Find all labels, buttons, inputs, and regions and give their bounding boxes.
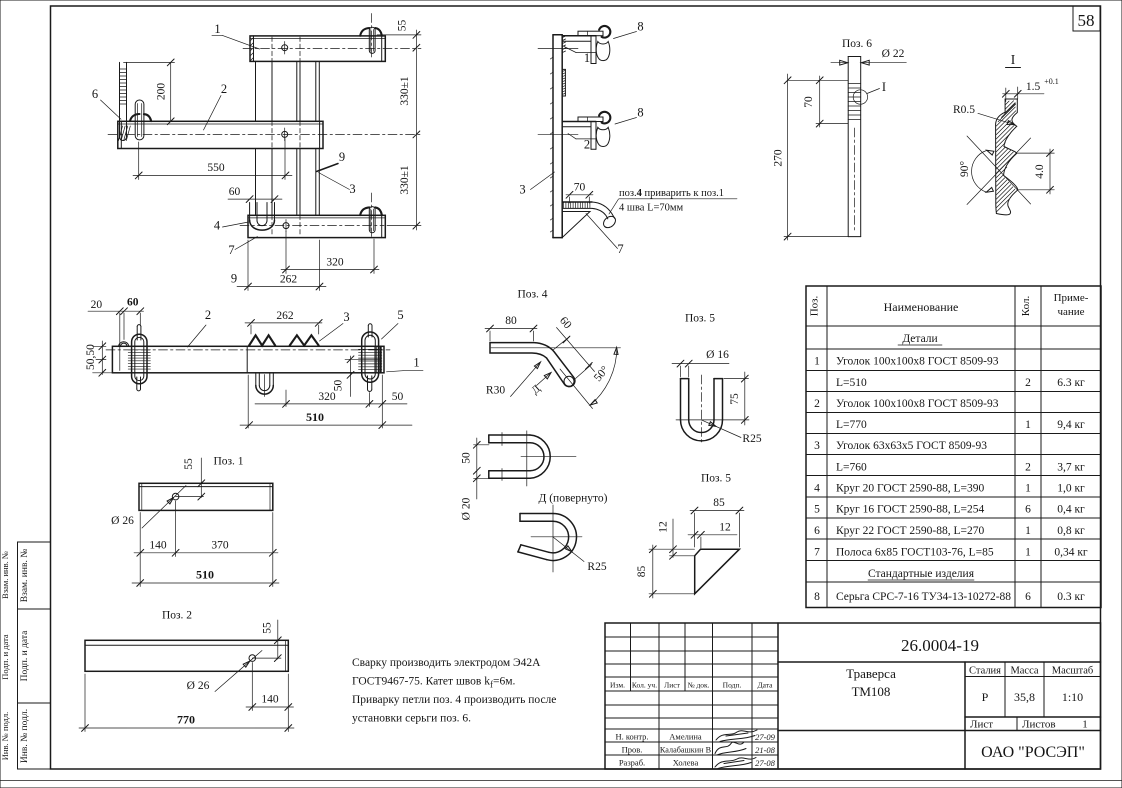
bar1 fold line (250, 38, 385, 40)
page edge faint line bottom (0, 780, 1122, 782)
svg-text:№ док.: № док. (687, 681, 709, 690)
pos6 dia dim arrows (831, 62, 847, 64)
svg-text:2: 2 (205, 308, 211, 322)
svg-text:7: 7 (814, 547, 820, 559)
svg-text:8: 8 (814, 591, 820, 603)
svg-text:1,0 кг: 1,0 кг (1057, 483, 1085, 495)
bar2 fold line (118, 123, 323, 125)
title block stadia-massa dividers (1004, 662, 1006, 717)
bar3 hole (283, 223, 289, 229)
dim 55 right (bar1 top to hole) (415, 30, 417, 230)
svg-text:320: 320 (318, 391, 336, 403)
svg-text:Лист: Лист (664, 681, 680, 690)
svg-text:Уголок 63х63х5 ГОСТ 8509-93: Уголок 63х63х5 ГОСТ 8509-93 (836, 440, 987, 452)
dim 330pm1 upper (413, 131, 420, 138)
svg-text:1: 1 (1082, 719, 1088, 731)
shackle 8 bar1 axis (371, 14, 373, 58)
title block left grid horizontals (605, 636, 778, 638)
bracket1 hole axis (538, 48, 578, 50)
svg-text:Поз. 4: Поз. 4 (517, 289, 547, 301)
pos2 hole (249, 655, 256, 662)
pos2 bar outline (85, 640, 288, 671)
title block vertical main dividers (777, 623, 779, 769)
svg-text:Амелина: Амелина (669, 732, 702, 742)
svg-text:85: 85 (713, 497, 725, 509)
gusset dim 85 left (652, 545, 654, 598)
left strip box Взам. инв. № (18, 542, 51, 609)
svg-text:1: 1 (584, 51, 590, 65)
dim 50,50 plan (101, 341, 103, 375)
eye plate on bracket2 (578, 117, 603, 122)
svg-text:Уголок 100х100х8 ГОСТ 8509-93: Уголок 100х100х8 ГОСТ 8509-93 (836, 398, 999, 410)
pos5 label R25 (701, 420, 741, 438)
view arrow D (537, 373, 551, 386)
shackle bar3: link edge capsule (369, 207, 375, 233)
svg-text:50: 50 (392, 391, 404, 403)
loop 4 on bar3 (front view) (249, 203, 251, 222)
pos4 U dim 50 (476, 438, 478, 480)
svg-text:Д (повернуто): Д (повернуто) (538, 493, 607, 505)
svg-text:L=510: L=510 (836, 377, 867, 389)
svg-text:6: 6 (1025, 591, 1031, 603)
svg-text:1.5: 1.5 (1026, 81, 1041, 93)
svg-text:Дата: Дата (758, 681, 774, 690)
svg-text:Траверса: Траверса (846, 666, 896, 681)
pos5 dim 75 (744, 372, 746, 425)
serga 8 mid pear link (596, 127, 610, 146)
svg-text:60: 60 (557, 315, 574, 332)
bar right end weld hatch vertical (374, 347, 376, 372)
svg-text:80: 80 (505, 315, 517, 327)
svg-text:550: 550 (207, 162, 225, 174)
title block horizontals right part (778, 661, 1101, 663)
svg-text:70: 70 (803, 96, 815, 108)
svg-text:I: I (882, 80, 886, 94)
pos6 weld zone rungs (848, 83, 861, 85)
bar2 hole (282, 131, 288, 137)
bolt 6 threaded rod at bar2 left (119, 62, 121, 137)
svg-text:установки серьги поз. 6.: установки серьги поз. 6. (352, 713, 471, 725)
dim 50 vertical plan (350, 356, 352, 397)
svg-text:70: 70 (574, 182, 586, 194)
plate top weld hatch (562, 36, 565, 38)
svg-text:50: 50 (333, 380, 345, 392)
dim 320 (view A) (281, 269, 379, 271)
pos6 label I with leader (867, 89, 880, 94)
svg-text:Кол.: Кол. (1020, 296, 1032, 317)
left strip box Подп. и дата (18, 609, 51, 703)
svg-text:Уголок 100х100х8 ГОСТ 8509-93: Уголок 100х100х8 ГОСТ 8509-93 (836, 356, 999, 368)
90 degree construction lines (967, 136, 1031, 204)
svg-text:R25: R25 (742, 433, 761, 445)
svg-text:Поз. 1: Поз. 1 (213, 456, 243, 468)
svg-text:Поз. 5: Поз. 5 (685, 313, 715, 325)
pos2 dim 770 (79, 727, 294, 729)
svg-text:200: 200 (156, 83, 168, 101)
pos4 U dim dia20 (476, 478, 478, 499)
pos1 bar outline (139, 483, 273, 510)
svg-text:Инв. № подл.: Инв. № подл. (0, 712, 10, 760)
svg-text:R0.5: R0.5 (953, 104, 975, 116)
weld zigzag 3 group 1 (249, 335, 275, 345)
svg-text:R30: R30 (486, 385, 505, 397)
svg-text:770: 770 (177, 712, 195, 726)
svg-text:Стандартные изделия: Стандартные изделия (868, 568, 975, 580)
dim 270 pos6 (787, 74, 789, 240)
left shackle 5 plan link (132, 334, 147, 384)
eye plate on bracket1 (578, 31, 603, 36)
left shackle pin top (136, 327, 138, 341)
svg-text:1: 1 (214, 22, 220, 36)
svg-text:75: 75 (729, 393, 741, 405)
bolt 6 edge on plate (threaded) (564, 69, 566, 96)
pos2 dim 140 (246, 706, 294, 708)
sheet number box 58 (1073, 6, 1100, 31)
bar1 hole axis centerline (243, 48, 421, 50)
dim 550 (133, 174, 292, 176)
svg-text:Разраб.: Разраб. (619, 758, 645, 768)
gusset dim 85 top (690, 510, 744, 512)
svg-text:60: 60 (127, 297, 139, 309)
signature squiggle 3 (715, 758, 756, 769)
gusset dim 12 top (688, 534, 737, 536)
svg-text:Пров.: Пров. (622, 745, 643, 755)
svg-text:ТМ108: ТМ108 (852, 684, 891, 699)
svg-text:4: 4 (814, 483, 820, 495)
svg-text:35,8: 35,8 (1014, 690, 1035, 704)
svg-text:Калабашкин В: Калабашкин В (660, 746, 712, 755)
svg-text:Приме-: Приме- (1054, 292, 1089, 304)
svg-text:330±1: 330±1 (399, 76, 411, 106)
svg-text:2: 2 (221, 82, 227, 96)
svg-text:7: 7 (228, 243, 234, 257)
svg-text:1: 1 (1025, 419, 1031, 431)
svg-text:Круг 22 ГОСТ 2590-88, L=270: Круг 22 ГОСТ 2590-88, L=270 (836, 525, 984, 537)
upright hidden lines inside bars (271, 37, 273, 61)
svg-text:85: 85 (636, 566, 648, 578)
pos2 dim 55 (277, 620, 279, 659)
pos4 U bottom leg (489, 470, 530, 472)
svg-text:Сталия: Сталия (969, 666, 1001, 677)
svg-text:3,7 кг: 3,7 кг (1057, 462, 1085, 474)
svg-text:Круг 16 ГОСТ 2590-88, L=254: Круг 16 ГОСТ 2590-88, L=254 (836, 504, 984, 516)
svg-text:Поз.: Поз. (809, 295, 821, 316)
svg-text:Сварку производить электродом: Сварку производить электродом Э42А (352, 657, 541, 669)
pos4 U top leg (489, 434, 530, 436)
svg-text:0.3 кг: 0.3 кг (1057, 591, 1085, 603)
svg-text:20: 20 (91, 299, 103, 311)
svg-text:370: 370 (211, 539, 229, 551)
svg-text:1: 1 (814, 356, 820, 368)
label 2 shelf and leader (576, 138, 596, 140)
pos4 U centerlines (526, 431, 528, 486)
svg-text:Подп. и дата: Подп. и дата (20, 630, 30, 682)
serga 8 top pear link (596, 42, 610, 61)
svg-text:Лист: Лист (970, 719, 993, 731)
svg-text:+0.1: +0.1 (1044, 77, 1059, 86)
svg-text:262: 262 (280, 274, 298, 286)
pos4 hook body (490, 343, 575, 387)
svg-text:ГОСТ9467-75. Катет швов kf=6м.: ГОСТ9467-75. Катет швов kf=6м. (352, 676, 515, 690)
svg-text:510: 510 (196, 568, 214, 582)
shackle 8 on bar1: link edge capsule (369, 27, 375, 53)
svg-text:Круг 20 ГОСТ 2590-88, L=390: Круг 20 ГОСТ 2590-88, L=390 (836, 483, 984, 495)
svg-text:140: 140 (261, 694, 279, 706)
pos1 dim 140 370 (134, 552, 278, 554)
bracket2 hole axis (538, 134, 578, 136)
bar1 hole (282, 45, 288, 51)
svg-text:Приварку петли поз. 4 производ: Приварку петли поз. 4 производить после (352, 694, 556, 706)
svg-text:I: I (1011, 52, 1016, 67)
weld zigzag 3 group 2 (290, 335, 319, 345)
svg-text:2: 2 (584, 138, 590, 152)
svg-text:Н. контр.: Н. контр. (615, 732, 648, 742)
svg-text:Масса: Масса (1010, 666, 1038, 677)
crossarm bar 3 bottom (front view) (248, 215, 385, 237)
svg-text:Ø 26: Ø 26 (187, 680, 210, 692)
svg-text:6: 6 (814, 525, 820, 537)
svg-text:55: 55 (183, 458, 195, 470)
dim 60 over loop (228, 198, 282, 200)
label 1 plan with shelf (403, 370, 423, 372)
svg-text:9: 9 (339, 150, 345, 164)
svg-text:Кол. уч.: Кол. уч. (632, 681, 657, 690)
hook 4 side view bend (592, 202, 615, 218)
gusset dim 12 left (672, 519, 674, 558)
svg-text:Ø 22: Ø 22 (882, 48, 905, 60)
right shackle axis (345, 358, 380, 360)
svg-text:21-08: 21-08 (755, 745, 776, 755)
svg-text:8: 8 (637, 20, 643, 34)
left shackle hatch (128, 349, 150, 351)
svg-text:140: 140 (149, 539, 167, 551)
svg-text:26.0004-19: 26.0004-19 (901, 636, 979, 655)
svg-text:R25: R25 (587, 561, 606, 573)
svg-text:50: 50 (461, 452, 473, 464)
dim 262 plan (245, 322, 322, 324)
left shackle pin bottom (136, 377, 138, 389)
svg-text:4: 4 (214, 219, 221, 233)
svg-text:6: 6 (1025, 504, 1031, 516)
90 degree arc with arrows (972, 151, 987, 193)
svg-text:60: 60 (229, 186, 241, 198)
pos6 detail circle I (853, 90, 867, 104)
svg-text:Полоса 6х85 ГОСТ103-76, L=85: Полоса 6х85 ГОСТ103-76, L=85 (836, 547, 994, 559)
pos4 rotated centerlines (531, 536, 582, 538)
svg-text:L=770: L=770 (836, 419, 867, 431)
pos5 U-bolt bend (681, 420, 723, 441)
bar3 hole axis centerline (240, 225, 384, 227)
dim 330pm1 lower (387, 225, 421, 227)
pos1 dim 510 (132, 582, 279, 584)
crossarm bar 2 middle (front view) (118, 121, 323, 148)
svg-text:6: 6 (92, 87, 98, 101)
title block left grid verticals (630, 623, 632, 691)
svg-text:3: 3 (814, 440, 820, 452)
dim 200 (bolt top to bar2) (124, 61, 175, 63)
svg-text:1: 1 (413, 356, 419, 370)
svg-text:4.0: 4.0 (1034, 164, 1046, 179)
bar3 fold line (248, 217, 385, 219)
svg-text:270: 270 (773, 149, 785, 167)
dim 262 (view A) (237, 286, 326, 288)
svg-text:5: 5 (814, 504, 820, 516)
bottom bracket and hook weld strip (562, 201, 592, 203)
dim 510 plan (240, 424, 412, 426)
svg-text:6.3 кг: 6.3 кг (1057, 377, 1085, 389)
plan bar 2 outline (112, 346, 384, 373)
dim 70 pos6 (819, 76, 821, 127)
svg-text:1:10: 1:10 (1062, 690, 1083, 704)
svg-text:2: 2 (1025, 462, 1031, 474)
svg-text:Поз. 5: Поз. 5 (701, 473, 731, 485)
pos5 U-bolt legs (680, 379, 682, 420)
svg-text:12: 12 (658, 521, 670, 533)
svg-text:58: 58 (1078, 11, 1095, 30)
label 1 shelf and leader (576, 52, 596, 54)
svg-text:Холева: Холева (673, 758, 699, 768)
svg-text:7: 7 (617, 242, 623, 256)
specification table grid (806, 286, 1101, 608)
svg-text:0,4 кг: 0,4 кг (1057, 504, 1085, 516)
shackle 8 on bar1 right end: wings (360, 28, 369, 36)
svg-text:поз.4 приварить к поз.1: поз.4 приварить к поз.1 (619, 188, 724, 199)
bracket 2 side (middle) (562, 121, 596, 123)
pos6 rod body (847, 57, 849, 237)
pos4 U rotated view (520, 513, 553, 515)
svg-text:Д: Д (529, 382, 543, 396)
right shackle 5 plan link (362, 332, 379, 382)
right shackle pin top (367, 326, 369, 337)
label R25 rotated view (553, 537, 584, 562)
left shackle axis stub (96, 359, 106, 361)
svg-text:50,50: 50,50 (85, 344, 97, 370)
plate 3 side view (552, 35, 554, 238)
pos4 slant centerline extension (560, 369, 593, 409)
svg-text:320: 320 (326, 257, 344, 269)
dim 4.0 (1049, 149, 1051, 194)
pos4 dim 80 (485, 328, 537, 330)
svg-text:Р: Р (982, 690, 989, 704)
svg-text:55: 55 (262, 622, 274, 634)
svg-text:9,4 кг: 9,4 кг (1057, 419, 1085, 431)
pos2 dia26 leader (215, 651, 262, 692)
pos1 dim 55 (200, 458, 202, 498)
svg-text:27-08: 27-08 (755, 758, 776, 768)
svg-text:2: 2 (814, 398, 820, 410)
signature squiggle 1 (716, 730, 757, 742)
pos4 horizontal reference line (491, 347, 621, 349)
bolt 6 head dome plan (118, 342, 128, 347)
serga 8 mid hook (filled) (599, 112, 610, 124)
svg-text:Ø 16: Ø 16 (706, 349, 729, 361)
pos1 dia26 leader (142, 486, 186, 529)
svg-text:1: 1 (1025, 483, 1031, 495)
plan bar centerline dash (106, 349, 390, 351)
svg-text:0,34 кг: 0,34 кг (1054, 547, 1088, 559)
title block outline (605, 623, 1101, 769)
pos5 centerlines (700, 375, 702, 444)
gusset 7 triangle (562, 212, 590, 238)
svg-text:9: 9 (231, 272, 237, 286)
pos6 rod centerline (854, 128, 856, 232)
shackle on bar2 left end: wings (130, 114, 140, 121)
crossarm bar 1 top (front view) (250, 36, 385, 62)
svg-text:Детали: Детали (902, 333, 937, 345)
right shackle pin bottom (367, 376, 369, 389)
bracket 1 side (top) (562, 35, 596, 37)
svg-text:1: 1 (1025, 525, 1031, 537)
svg-text:чание: чание (1057, 306, 1084, 318)
pos5 dia16 dim (672, 363, 729, 365)
svg-text:Масштаб: Масштаб (1052, 666, 1093, 677)
svg-text:90°: 90° (959, 161, 971, 178)
plate weld ticks left edge (550, 57, 553, 59)
pos4 hook end circle (564, 376, 574, 386)
svg-text:Изм.: Изм. (610, 681, 625, 690)
svg-text:Наименование: Наименование (884, 300, 959, 314)
svg-text:5: 5 (397, 308, 403, 322)
pos4 dim 60 slanted (557, 328, 595, 372)
svg-text:12: 12 (719, 521, 731, 533)
serga 8 top hook (filled) (599, 26, 610, 38)
gusset outline (695, 549, 740, 594)
dims 20 and 60 plan (88, 310, 144, 312)
svg-text:Взам. инв. №: Взам. инв. № (0, 551, 10, 599)
svg-text:8: 8 (637, 106, 643, 120)
svg-text:55: 55 (397, 20, 409, 32)
svg-text:2: 2 (1025, 377, 1031, 389)
svg-text:Поз. 2: Поз. 2 (162, 610, 192, 622)
knurl hatching (1006, 101, 1010, 105)
svg-text:3: 3 (349, 182, 355, 196)
50 degree arc (590, 348, 617, 406)
right shackle hatch (359, 346, 382, 348)
svg-text:ОАО "РОСЭП": ОАО "РОСЭП" (981, 744, 1085, 761)
svg-text:Взам. инв. №: Взам. инв. № (20, 549, 30, 603)
pos1 hole (172, 493, 179, 500)
svg-text:Подп.: Подп. (723, 681, 742, 690)
left strip box Инв. № подл. (18, 703, 51, 769)
svg-text:27-09: 27-09 (755, 732, 776, 742)
svg-text:3: 3 (519, 183, 525, 197)
svg-text:Поз. 6: Поз. 6 (842, 38, 872, 50)
pos4 U right bend (530, 435, 550, 478)
svg-text:4 шва L=70мм: 4 шва L=70мм (619, 203, 684, 214)
svg-text:262: 262 (276, 310, 294, 322)
bar2 hole axis centerline (108, 133, 421, 135)
signature squiggle 2 (715, 742, 746, 755)
svg-text:Подп. и дата: Подп. и дата (0, 634, 10, 680)
shackle on bar3 right end: wings (360, 207, 369, 215)
svg-text:L=760: L=760 (836, 462, 867, 474)
upright angle 3 vertical lines (255, 61, 257, 121)
svg-text:Ø 26: Ø 26 (111, 515, 134, 527)
svg-text:0,8 кг: 0,8 кг (1057, 525, 1085, 537)
dim 70 side view (566, 194, 593, 196)
svg-text:Ø 20: Ø 20 (461, 497, 473, 520)
svg-text:Серьга СРС-7-16 ТУ34-13-10272-: Серьга СРС-7-16 ТУ34-13-10272-88 (836, 591, 1011, 603)
svg-text:3: 3 (343, 310, 349, 324)
svg-text:1: 1 (1025, 547, 1031, 559)
loop 4 hanging plan (255, 373, 257, 386)
dim 320 and 50 plan (255, 403, 407, 405)
svg-text:510: 510 (306, 410, 324, 424)
svg-text:Инв. № подл.: Инв. № подл. (20, 709, 30, 763)
svg-text:Листов: Листов (1022, 719, 1056, 731)
hook 4 end cap ellipse (601, 214, 617, 230)
svg-text:330±1: 330±1 (399, 165, 411, 195)
